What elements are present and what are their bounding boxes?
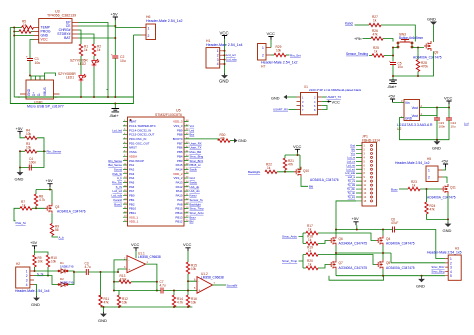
junction node: [382, 275, 423, 277]
svg-text:AO3400A_C347475: AO3400A_C347475: [413, 56, 442, 60]
svg-text:100n: 100n: [439, 124, 446, 128]
wire Q6 drain/source column: [335, 230, 337, 276]
junction node: [156, 281, 158, 292]
svg-text:Tp_do: Tp_do: [348, 191, 356, 195]
wire left verticals to bottom rails: [10, 28, 133, 104]
wire STDBY# to R2 and LED2 chain: [78, 34, 94, 97]
junction node: [35, 207, 37, 209]
diode D2 1N5817-B: [58, 277, 74, 287]
wire R3 left/down loop and C4: [20, 151, 25, 167]
svg-text:470k: 470k: [421, 65, 428, 69]
capacitor C2: [111, 53, 126, 63]
svg-text:1N5817-B: 1N5817-B: [60, 280, 74, 284]
junction node: [392, 47, 394, 57]
svg-text:+Fib: +Fib: [354, 37, 362, 41]
svg-text:+: +: [198, 289, 200, 293]
battery flag -Bat+: [109, 104, 119, 118]
wire VCC column through pins to GND: [224, 39, 226, 74]
power VCC for H1: [220, 30, 229, 39]
wire H5 pin2 to Q11 drain: [443, 177, 448, 183]
wire R23 to Q11 gate: [420, 188, 441, 190]
junction node: [19, 167, 21, 169]
resistor R5: [22, 20, 34, 30]
IC U2 LD1117AS-3.3: [397, 99, 433, 131]
svg-text:A_b: A_b: [59, 235, 65, 239]
svg-text:Bkl: Bkl: [309, 185, 314, 189]
svg-text:+: +: [26, 55, 28, 59]
wire SW3 bottom row to Q9 gate: [393, 48, 424, 62]
svg-text:SoundN: SoundN: [227, 283, 238, 287]
resistor R10 10k: [46, 255, 57, 267]
USB connector USB1 Micro USB SP_cd1977: [18, 76, 64, 109]
svg-text:4.7k: 4.7k: [39, 198, 45, 202]
svg-text:Led_a: Led_a: [348, 175, 356, 179]
svg-text:PB12: PB12: [175, 220, 182, 224]
svg-text:TP4056_C382139: TP4056_C382139: [47, 14, 76, 18]
wire source rail to H3 pin5: [336, 275, 445, 277]
wire R19 to Q5 gate: [318, 255, 376, 265]
power VCC for H7: [267, 31, 276, 40]
svg-text:H2: H2: [16, 262, 20, 266]
wire C5/R28 bottoms to rail: [393, 51, 434, 76]
svg-text:GND: GND: [427, 16, 436, 21]
svg-text:LED1: LED1: [66, 76, 74, 80]
resistor R21 47k: [283, 158, 294, 170]
svg-text:VCC: VCC: [444, 95, 453, 100]
wire BOOT0 to R30: [189, 139, 219, 141]
junction node: [224, 50, 226, 65]
svg-text:3: 3: [26, 278, 28, 282]
wire U1.1 output column: [146, 264, 157, 290]
wire R27 to SW3 right column: [381, 25, 415, 42]
capacitor C5: [389, 59, 403, 69]
transistor Q11 AO3400A: [427, 184, 456, 200]
svg-text:+5V: +5V: [46, 178, 54, 183]
wire R24 bottom to source rail: [427, 194, 449, 222]
power VCC (U1.1): [131, 242, 140, 258]
svg-text:VCC: VCC: [183, 242, 192, 247]
resistor R6: [19, 30, 31, 33]
resistor R14 4.7k: [172, 291, 183, 308]
svg-text:Struc_Bing: Struc_Bing: [431, 270, 445, 274]
junction node: [417, 47, 419, 78]
resistor R8 4.7k: [34, 194, 45, 206]
power +5V at H5: [441, 158, 449, 170]
wire LDO gnd loop and caps to gnd rail: [400, 118, 450, 140]
svg-text:+: +: [389, 59, 391, 63]
capacitor C23 100n: [434, 108, 446, 129]
wire CHRG# to R1 and LED1 chain: [78, 30, 81, 97]
wire +5V to R4: [20, 135, 25, 138]
svg-text:1k: 1k: [22, 203, 26, 207]
svg-text:Bkl: Bkl: [351, 147, 355, 151]
transistor Q10 AO3401A: [294, 167, 339, 182]
resistor R16 10k: [186, 295, 197, 307]
svg-text:1k: 1k: [308, 249, 312, 253]
svg-text:+5V: +5V: [441, 158, 449, 163]
svg-text:Q3: Q3: [55, 205, 59, 209]
wire VCC to R21 and Q10 source: [285, 153, 300, 171]
svg-text:VCC: VCC: [332, 100, 341, 105]
wire CE to +5V column: [78, 25, 115, 27]
junction node: [447, 218, 449, 220]
junction node: [297, 154, 299, 156]
svg-text:10k: 10k: [38, 260, 44, 264]
svg-text:Buzz: Buzz: [391, 187, 398, 191]
capacitor C24 10u: [446, 108, 456, 129]
resistor R7 1k: [20, 200, 32, 210]
svg-text:4.7u: 4.7u: [160, 284, 166, 288]
pushbutton SW3 Button-6x6x5mm: [397, 33, 423, 49]
junction node: [49, 189, 51, 191]
svg-text:10u: 10u: [398, 65, 404, 69]
wire junction to net label: [37, 150, 46, 152]
svg-text:Vin: Vin: [405, 101, 410, 105]
resistor R1: [79, 44, 88, 56]
svg-text:Struc_Ardu: Struc_Ardu: [282, 235, 297, 239]
ground (top right): [427, 16, 437, 42]
svg-text:Lcd: Lcd: [464, 122, 469, 126]
transistor Q5 AO3400A: [376, 260, 415, 270]
resistor R13 470k: [119, 274, 131, 283]
wire label to R17/R18: [299, 233, 307, 244]
wire R22 to Q10 gate / R21 bottom: [277, 170, 294, 172]
net label USART_TX at crystal: [322, 95, 341, 99]
svg-text:GND: GND: [98, 318, 107, 323]
ground (sideways flag at R30): [230, 138, 247, 143]
svg-text:H5: H5: [427, 157, 431, 161]
svg-text:1k: 1k: [308, 263, 312, 267]
resistor R29: [274, 45, 286, 57]
resistor R3: [25, 142, 37, 153]
svg-text:+5V: +5V: [16, 126, 24, 131]
power +5V: [111, 11, 119, 20]
resistor R22 1k: [265, 163, 277, 174]
svg-text:Header-Male 2.54_1x2: Header-Male 2.54_1x2: [146, 19, 183, 23]
wire TEMP row: [10, 27, 33, 29]
battery flag -Bat+ (top right): [387, 75, 397, 89]
wire R26 to SW3 left column: [383, 39, 393, 42]
wire R28 top to Q9 gate wire: [417, 48, 419, 60]
wire +Fib to R26: [363, 38, 372, 40]
ground: [15, 168, 24, 182]
power VCC (R15): [183, 242, 192, 262]
capacitor C7 4.7u: [160, 280, 166, 294]
svg-text:X1: X1: [304, 85, 308, 89]
wire C2 bottom to rail: [114, 58, 116, 97]
wire U1.1 inverting input loop to R13: [114, 260, 127, 291]
wire +5V to Vin: [393, 101, 405, 103]
svg-text:Q9: Q9: [434, 51, 438, 55]
wire JP1 last pin to Q6 drain: [336, 201, 356, 232]
junction node: [13, 27, 15, 37]
svg-text:+: +: [128, 268, 130, 272]
svg-text:Lcd_cs: Lcd_cs: [347, 159, 356, 163]
svg-text:2: 2: [428, 176, 430, 180]
op-amp U1.2 LM358_C96638: [194, 272, 224, 293]
power +5V: [46, 178, 54, 187]
power +5V: [16, 126, 24, 135]
wire Q3 drain down to R9b: [51, 213, 53, 223]
resistor R28 470k: [416, 60, 428, 72]
svg-text:GND: GND: [443, 228, 452, 233]
svg-text:Vout: Vout: [412, 106, 418, 110]
svg-text:10k: 10k: [122, 301, 128, 305]
svg-text:VCC: VCC: [131, 242, 140, 247]
wire +5V rail to R9/R10: [35, 249, 49, 255]
svg-text:Pwk_St: Pwk_St: [16, 221, 26, 225]
svg-text:D-: D-: [37, 93, 41, 96]
svg-text:+: +: [111, 53, 113, 57]
svg-text:LD1117AS-3.3 AA3-A R: LD1117AS-3.3 AA3-A R: [397, 123, 433, 127]
resistor R26: [371, 29, 383, 40]
resistor R19 1k: [306, 246, 318, 257]
connector JP1 FBHD-1314: [362, 135, 380, 206]
resistor R27: [369, 15, 381, 26]
svg-text:VCC: VCC: [41, 38, 49, 42]
svg-text:+5V: +5V: [111, 11, 119, 16]
svg-text:Lcd_sda: Lcd_sda: [345, 171, 355, 175]
svg-text:Q11: Q11: [450, 186, 456, 190]
junction node: [34, 270, 50, 277]
wire U1.2 output to net label: [213, 284, 227, 286]
junction node: [113, 281, 115, 292]
svg-text:1k: 1k: [412, 183, 416, 187]
svg-text:Header-Male 2.54_1x5: Header-Male 2.54_1x5: [427, 251, 462, 255]
junction node: [335, 229, 384, 231]
wire Buzz to R23: [399, 188, 408, 190]
header H1 Header-Male 2.54_1x4: [206, 39, 243, 68]
junction node: [335, 252, 384, 254]
svg-text:Struc_Brzz: Struc_Brzz: [431, 265, 445, 269]
svg-text:10k: 10k: [276, 48, 282, 52]
power +5V (LDO input): [388, 94, 396, 103]
resistor R9 10k: [33, 255, 43, 267]
svg-text:Rin_Set: Rin_Set: [290, 53, 301, 57]
svg-text:Vout: Vout: [412, 114, 418, 118]
header H2 Header-Male 2.54_1x4: [15, 262, 50, 293]
IC U5 STM32F103C8T6: [123, 109, 189, 226]
wire main row to op-amp: [88, 269, 127, 272]
ground (below H3 rail): [416, 276, 425, 289]
op-amp U1.1 LM358_C96638: [124, 252, 161, 273]
svg-text:470k: 470k: [120, 278, 127, 282]
transistor Q9 AO3400A (top right): [413, 41, 442, 60]
svg-text:Tp_din: Tp_din: [347, 187, 355, 191]
wire H7 pin1 to VCC: [270, 40, 272, 48]
svg-text:47k: 47k: [220, 136, 226, 140]
svg-text:+5V: +5V: [352, 216, 360, 221]
transistor Q7 AO3400A: [329, 260, 367, 270]
svg-text:GND: GND: [271, 97, 280, 101]
svg-text:100n: 100n: [29, 161, 36, 165]
svg-text:Header-Male 2.54_1x2: Header-Male 2.54_1x2: [261, 61, 298, 65]
svg-text:AO3401A_C347476: AO3401A_C347476: [310, 178, 339, 182]
svg-text:D+: D+: [32, 92, 36, 96]
header H6 Header-Male 2.54_1x2: [141, 15, 183, 40]
capacitor C4 100n: [20, 151, 44, 170]
svg-text:-: -: [198, 279, 199, 283]
ground (sideways flag at crystal pin1): [271, 95, 297, 101]
svg-text:1k: 1k: [373, 19, 377, 23]
svg-text:4: 4: [26, 283, 28, 287]
IC U3 TP4056_C382139: [34, 10, 79, 43]
svg-text:Struc_Timp: Struc_Timp: [282, 259, 298, 263]
svg-text:AO3400A_C347475: AO3400A_C347475: [386, 242, 415, 246]
svg-text:VCC: VCC: [293, 144, 302, 149]
wire R13 to output column: [131, 281, 157, 283]
svg-text:Header-Male 2.54_1x4: Header-Male 2.54_1x4: [15, 289, 50, 293]
wire +5V rail to R8 and Q3 source: [36, 187, 52, 203]
net label USART_RX at crystal: [273, 108, 296, 112]
svg-text:2: 2: [148, 34, 150, 38]
wire label to R25: [369, 55, 372, 57]
resistor R9b 56: [50, 224, 59, 236]
svg-text:VCC: VCC: [267, 31, 276, 36]
JP1 pin pads and numbers: [364, 145, 373, 203]
svg-text:Tp_cs: Tp_cs: [348, 179, 356, 183]
capacitor C3 4.7u: [85, 262, 91, 276]
svg-text:10k: 10k: [26, 146, 32, 150]
svg-text:10u: 10u: [35, 61, 41, 65]
svg-text:VDD_1: VDD_1: [129, 220, 139, 224]
wire Q10 drain to Bkl label: [301, 177, 308, 187]
svg-text:10k: 10k: [191, 301, 197, 305]
svg-text:Lcd_scl: Lcd_scl: [226, 53, 236, 57]
resistor R20 1k: [306, 259, 318, 270]
svg-text:1k: 1k: [84, 48, 88, 52]
resistor R25: [372, 46, 384, 57]
svg-text:Q6: Q6: [339, 237, 343, 241]
capacitor C6 47uF: [391, 218, 398, 233]
svg-text:1k: 1k: [308, 238, 312, 242]
svg-text:USART_RX: USART_RX: [273, 108, 288, 112]
svg-text:Lcd_scl: Lcd_scl: [346, 167, 355, 171]
svg-text:1: 1: [262, 46, 264, 50]
svg-text:VCC: VCC: [220, 30, 229, 35]
svg-text:Header-Male 2.54_1x2: Header-Male 2.54_1x2: [395, 161, 430, 165]
ground (below H2): [31, 296, 40, 307]
wire R7/R8 junction to Q3 gate: [32, 206, 45, 208]
resistor R18 1k: [306, 235, 318, 246]
svg-text:47k: 47k: [288, 163, 294, 167]
svg-text:Lcd_sda: Lcd_sda: [226, 58, 237, 62]
wire H7 pin2 to R29: [271, 54, 274, 56]
power +5V: [352, 216, 360, 225]
junction node: [436, 107, 450, 109]
svg-text:Rin_Sense: Rin_Sense: [47, 150, 62, 154]
svg-text:FBHD-1314: FBHD-1314: [362, 139, 380, 143]
svg-text:GND: GND: [416, 284, 425, 289]
resistor R23 1k: [408, 180, 420, 191]
wire R29 to net label: [286, 54, 290, 56]
transistor Q6 AO3400A: [329, 236, 367, 246]
svg-text:Gnd: Gnd: [350, 144, 355, 148]
power +5V: [30, 240, 38, 249]
svg-text:Micro USB SP_cd1977: Micro USB SP_cd1977: [27, 105, 64, 109]
svg-text:56: 56: [55, 228, 59, 232]
LED LED2 SZYY0805R: [70, 59, 99, 68]
svg-text:Kanci: Kanci: [345, 21, 353, 25]
svg-text:Bkl: Bkl: [190, 220, 194, 224]
wire label to R19/R20: [299, 255, 307, 269]
svg-text:Vcc: Vcc: [351, 151, 356, 155]
svg-text:1k: 1k: [308, 227, 312, 231]
resistor R17 1k: [306, 224, 318, 235]
junction node: [436, 139, 438, 141]
svg-text:10k: 10k: [26, 132, 32, 136]
wire R25 right to C5/R28 junction column: [384, 48, 393, 56]
svg-text:4.7k: 4.7k: [177, 301, 183, 305]
power VCC at crystal pin4: [322, 100, 340, 105]
junction node: [426, 188, 428, 190]
svg-text:LED2: LED2: [78, 62, 86, 66]
svg-text:AO3401A_C347476: AO3401A_C347476: [57, 210, 86, 214]
wire H6 pin2 down: [134, 34, 142, 36]
wire Vout pin2 to VCC rail: [420, 108, 450, 116]
svg-text:3: 3: [217, 58, 219, 62]
junction node: [284, 171, 286, 173]
svg-text:47k: 47k: [373, 32, 379, 36]
svg-text:47k: 47k: [104, 301, 110, 305]
svg-text:Q10: Q10: [303, 169, 309, 173]
svg-text:LM358_C96638: LM358_C96638: [138, 255, 161, 259]
wire R20 to Q7 gate: [318, 265, 329, 269]
transistor Q4 AO3400A: [376, 236, 415, 246]
svg-text:H7: H7: [261, 64, 265, 68]
wire H2 pin4 to GND: [34, 285, 37, 297]
wire +5V top rail: [336, 225, 393, 229]
wire R18 to Q6 gate: [318, 241, 329, 244]
wire bottom rail: [101, 306, 193, 308]
wire PROG row: [14, 31, 33, 33]
wire: [14, 28, 133, 98]
svg-text:AO3400A_C347475: AO3400A_C347475: [386, 266, 415, 270]
wire Kanci to R27: [355, 24, 370, 26]
power VCC: [293, 144, 302, 153]
wire BAT to +5V column: [78, 37, 115, 39]
wire pin1 row to D1: [34, 267, 58, 271]
transistor Q3 AO3401A (p-mosfet): [45, 203, 86, 213]
svg-text:10k: 10k: [51, 260, 57, 264]
capacitor C1: [26, 55, 40, 65]
wire usb pins to rails: [31, 73, 56, 76]
junction node: [103, 306, 190, 308]
svg-text:2: 2: [262, 53, 264, 57]
header H5 Header-Male 2.54_1x2: [395, 157, 443, 182]
resistor R24 47k: [425, 189, 436, 214]
junction node: [73, 271, 75, 273]
svg-text:2100 2*4P L=11.6MMGold-plated: 2100 2*4P L=11.6MMGold-plated black: [309, 88, 362, 92]
power VCC (3v3 rail): [444, 95, 453, 107]
wire VCC pin down through C1: [30, 40, 34, 77]
svg-text:Sensor_Testing: Sensor_Testing: [346, 52, 368, 56]
wire lower loop: [329, 276, 384, 281]
resistor R30: [218, 133, 230, 142]
wire JP1 pin stubs: [356, 146, 362, 201]
svg-text:AO3400A_C347475: AO3400A_C347475: [427, 196, 456, 200]
crystal X1 2100 2*4P L=11.6MM Gold-plated black: [297, 85, 362, 115]
header H3 Header-Male 2.54_1x5: [427, 246, 462, 280]
wire R17 to Q4 gate column: [318, 233, 376, 241]
svg-text:Buz: Buz: [190, 133, 195, 137]
LED LED1 SZYY0805R: [58, 72, 86, 82]
svg-text:-Bat+: -Bat+: [387, 84, 397, 89]
svg-text:GND: GND: [27, 88, 31, 96]
wire R4 to junction column: [37, 138, 44, 152]
svg-text:Buzz2: Buzz2: [114, 202, 122, 206]
resistor R4: [25, 129, 37, 140]
